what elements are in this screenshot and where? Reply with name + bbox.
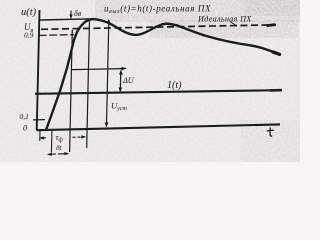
tick T1 [50,130,53,153]
svg-text:0,9: 0,9 [24,31,34,40]
svg-text:δв: δв [74,9,82,18]
svg-text:δt: δt [56,143,62,152]
dim row1: dashed right arrow [73,136,84,138]
x axis (time) [37,124,280,130]
peak level line [40,19,93,20]
ideal line end thick dash [267,25,276,26]
vertical V1 (0.9 projection) [70,30,73,152]
vertical V2 [87,20,90,149]
real PX curve [46,19,276,130]
overshoot arrow (points down to peak line) [70,11,72,17]
paper background [0,0,300,162]
vertical V3 with arrows (through the peak) [107,21,109,125]
svg-text:1(t): 1(t) [167,80,182,91]
scanned transient-response chart [0,0,300,162]
0.1 level tick [33,119,45,121]
0.9 level line [39,34,74,37]
mid horizontal segment with right arrow [72,69,124,70]
t axis label (handwritten cross-like t) [270,128,272,137]
tick T0 below origin [39,130,41,141]
dim row3: outward arrow pair [49,153,56,155]
curve end blob [273,52,280,54]
svg-text:0,1: 0,1 [20,112,29,121]
svg-text:Идеальная ПХ: Идеальная ПХ [197,15,252,24]
y axis [37,10,40,131]
svg-text:uвых(t)=h(t)-реальная ПХ: uвых(t)=h(t)-реальная ПХ [104,4,211,16]
dim row1: left arrow [41,137,47,139]
ideal PX dashed line [41,25,276,30]
ideal PX leader [230,22,237,27]
svg-text:u(t): u(t) [21,7,37,18]
svg-text:ΔU: ΔU [122,76,135,85]
dU arrow (double headed vertical) [119,72,122,90]
1(t)/steady line [35,90,282,94]
